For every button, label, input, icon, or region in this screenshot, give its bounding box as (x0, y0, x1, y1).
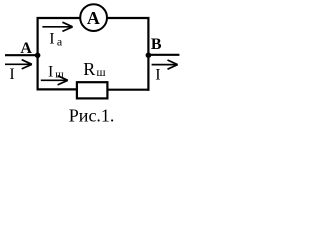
wire: left input horizontal (5, 54, 38, 56)
ammeter U1 circle (80, 4, 107, 31)
wire: left vertical (node A up to top branch, down to shunt branch) (36, 17, 38, 90)
current arrow Iw (shunt) (41, 76, 68, 85)
caption Рис.1. (69, 106, 115, 126)
wire: bottom branch right segment (107, 89, 149, 91)
label Iw (shunt current) (48, 63, 64, 80)
svg-text:a: a (57, 35, 63, 49)
wire: right vertical (top branch down to node B and shunt branch) (147, 17, 149, 91)
svg-text:Рис.1.: Рис.1. (69, 106, 115, 126)
label I (input current) (9, 66, 14, 83)
resistor Rw (shunt) body (77, 82, 108, 98)
svg-text:B: B (151, 36, 162, 53)
svg-text:ш: ш (55, 68, 64, 80)
current arrow Ia (42, 22, 72, 31)
wire: top branch left segment (37, 17, 81, 19)
label I (output current) (155, 66, 160, 83)
wire: right output horizontal (148, 54, 179, 56)
node A (35, 53, 41, 59)
wire: top branch right segment (107, 17, 150, 19)
label Ia (49, 30, 63, 48)
label Rw (83, 59, 106, 79)
svg-text:I: I (155, 66, 160, 83)
label node B (151, 36, 162, 53)
wire: bottom branch left segment (37, 88, 78, 90)
svg-text:I: I (9, 66, 14, 83)
svg-text:I: I (49, 30, 54, 47)
svg-text:R: R (83, 59, 95, 79)
svg-text:ш: ш (96, 65, 106, 79)
current arrow I (input) (5, 60, 32, 69)
ammeter label A (87, 8, 100, 28)
svg-text:A: A (87, 8, 100, 28)
node B (146, 52, 152, 58)
current arrow I (output) (152, 60, 178, 69)
label node A (20, 40, 32, 57)
svg-text:I: I (48, 63, 53, 80)
svg-text:A: A (20, 40, 32, 57)
